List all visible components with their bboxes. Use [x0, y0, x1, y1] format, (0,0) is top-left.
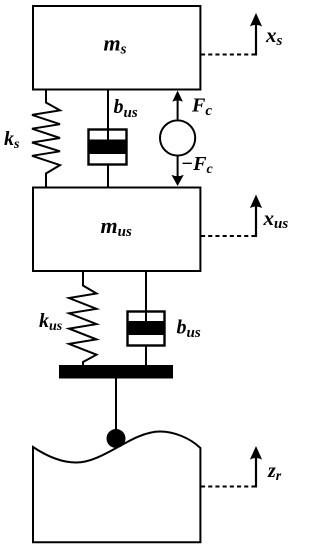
actuator force arrow down — [171, 156, 183, 187]
road contact point — [107, 429, 126, 448]
x_us reference: dashed line — [201, 235, 256, 237]
svg-text:Fc: Fc — [191, 95, 212, 120]
svg-text:zr: zr — [267, 460, 282, 484]
wheel rod — [115, 378, 117, 432]
svg-text:bus: bus — [177, 317, 201, 342]
damper b_us top: piston — [90, 140, 126, 155]
sprung mass m_s — [33, 6, 200, 90]
x_s reference: arrow — [250, 13, 262, 56]
x_us reference: arrow — [250, 195, 262, 238]
unsprung mass m_us — [33, 188, 200, 272]
svg-text:ks: ks — [4, 128, 20, 152]
z_r reference: arrow — [250, 446, 262, 488]
actuator circle — [160, 120, 195, 155]
svg-text:xs: xs — [265, 23, 283, 49]
damper b_us lower: piston — [129, 321, 164, 335]
svg-text:xus: xus — [263, 206, 289, 232]
damper b_us lower: cylinder body — [128, 312, 165, 346]
damper b_us top: rod upper — [107, 90, 109, 146]
road profile — [33, 432, 200, 543]
x_s reference: dashed line — [201, 54, 256, 56]
damper b_us lower: rod upper — [145, 271, 147, 327]
actuator force arrow up — [172, 91, 183, 121]
tire contact plate — [59, 365, 173, 379]
svg-text:bus: bus — [114, 96, 138, 121]
spring k_us — [69, 271, 97, 367]
spring k_s — [32, 90, 60, 188]
damper b_us lower: rod lower — [145, 345, 147, 367]
svg-text:−Fc: −Fc — [181, 153, 213, 177]
z_r reference: dashed line — [201, 486, 256, 488]
damper b_us top: rod lower — [107, 164, 109, 188]
svg-text:kus: kus — [39, 310, 63, 334]
damper b_us top: cylinder body — [89, 130, 127, 165]
